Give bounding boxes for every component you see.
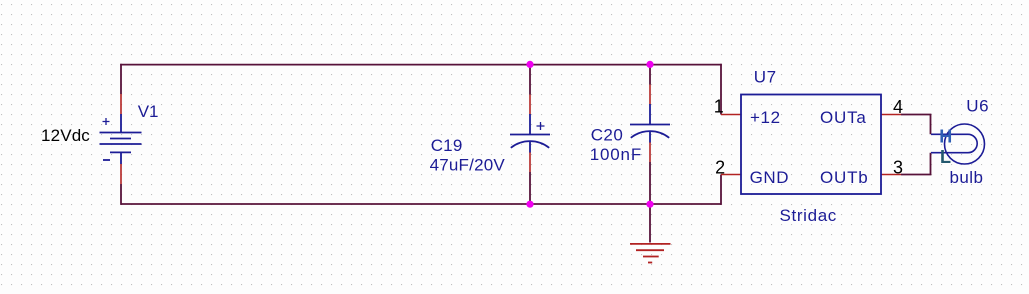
capacitor C19 pin top [529, 95, 531, 115]
wire C19 bottom [529, 172, 531, 204]
wire battery bottom [120, 184, 122, 205]
capacitor C20 symbol [630, 104, 670, 143]
svg-text:U7: U7 [754, 67, 777, 86]
lamp pin name H [939, 127, 952, 147]
U7 pin name GND [750, 168, 790, 187]
U7 IC body [741, 95, 881, 195]
svg-text:12Vdc: 12Vdc [41, 126, 90, 145]
label U7 [754, 67, 777, 86]
battery V1 pin top [120, 94, 122, 115]
svg-text:OUTb: OUTb [820, 168, 869, 187]
svg-text:GND: GND [750, 168, 790, 187]
svg-text:V1: V1 [138, 102, 159, 121]
U7 pin name OUTa [820, 108, 867, 127]
U7 pin 2 stub [721, 174, 741, 176]
svg-text:C19: C19 [431, 136, 463, 155]
U7 pin 1 stub [721, 114, 741, 116]
wire C20 bottom [649, 162, 651, 204]
wire U7 pin3 to bulb [901, 153, 931, 175]
wire top bus [120, 64, 722, 66]
junction C19 bottom [526, 201, 533, 208]
label 12Vdc [41, 126, 90, 145]
label U6 [966, 96, 989, 115]
wire U7 pin2 drop [720, 175, 722, 205]
svg-text:bulb: bulb [950, 168, 984, 187]
wire C20 top [649, 64, 651, 85]
wire U7 pin1 drop [720, 64, 722, 115]
svg-text:3: 3 [893, 157, 903, 177]
svg-text:Stridac: Stridac [780, 206, 837, 225]
svg-text:OUTa: OUTa [820, 108, 867, 127]
lamp U6 symbol [931, 124, 985, 164]
wire bottom bus [121, 203, 721, 205]
svg-text:L: L [940, 147, 951, 167]
svg-text:+12: +12 [750, 108, 781, 127]
U7 pin name OUTb [820, 168, 869, 187]
svg-text:1: 1 [714, 96, 724, 116]
junction C19 top [526, 61, 533, 68]
ground [630, 244, 671, 263]
U7 pin 4 stub [881, 114, 901, 116]
label C20 [591, 125, 624, 144]
U7 pin 3 stub [881, 174, 901, 176]
capacitor C20 pin bottom [649, 142, 651, 162]
wire ground drop [649, 204, 651, 243]
lamp pin name L [940, 147, 951, 167]
capacitor C19 symbol [510, 114, 550, 153]
battery plus mark [103, 118, 110, 125]
wire battery top [120, 64, 122, 94]
label bulb [950, 168, 984, 187]
svg-text:U6: U6 [966, 96, 989, 115]
label 47uF/20V [430, 156, 506, 175]
battery V1 symbol [100, 114, 142, 164]
wire U7 pin4 to bulb [901, 115, 931, 135]
junction C20 top [646, 61, 653, 68]
label 100nF [590, 145, 642, 164]
label Stridac [780, 206, 837, 225]
svg-text:4: 4 [893, 97, 903, 117]
U7 pin name +12 [750, 108, 781, 127]
pin number 1 [714, 96, 724, 116]
battery minus mark [103, 159, 110, 161]
pin number 2 [715, 157, 725, 177]
capacitor C19 pin bottom [529, 152, 531, 172]
svg-text:2: 2 [715, 157, 725, 177]
label V1 [138, 102, 159, 121]
label C19 [431, 136, 463, 155]
svg-text:C20: C20 [591, 125, 624, 144]
battery V1 pin bottom [120, 164, 122, 184]
svg-text:100nF: 100nF [590, 145, 642, 164]
C19 plus mark [537, 122, 545, 130]
svg-text:H: H [939, 127, 952, 147]
capacitor C20 pin top [649, 85, 651, 105]
wire C19 top [529, 64, 531, 95]
junction C20 bottom / ground [646, 201, 653, 208]
pin number 4 [893, 97, 903, 117]
svg-text:47uF/20V: 47uF/20V [430, 156, 506, 175]
pin number 3 [893, 157, 903, 177]
